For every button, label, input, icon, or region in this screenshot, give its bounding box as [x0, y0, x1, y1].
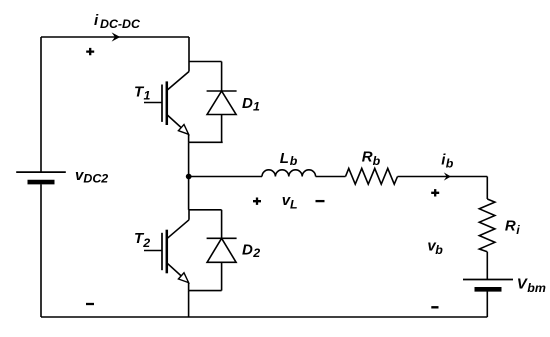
arrow i_b — [444, 172, 451, 180]
svg-text:R: R — [505, 218, 516, 235]
wire D1 bottom — [221, 115, 223, 143]
label vb — [427, 238, 443, 257]
label T1 — [134, 84, 151, 103]
wire bottom rail — [41, 316, 487, 318]
wire mid rail left — [189, 176, 262, 178]
wire T2 emitter to bottom rail — [188, 291, 190, 317]
plus sign vb — [431, 189, 439, 196]
label ib — [441, 152, 454, 171]
arrow i_DC-DC — [112, 32, 121, 41]
svg-text:R: R — [362, 149, 373, 166]
wire top rail — [41, 36, 189, 38]
wire D2 top — [221, 210, 223, 239]
wire right vertical mid — [486, 252, 488, 280]
svg-text:bm: bm — [527, 281, 546, 295]
label Vbm — [517, 276, 546, 295]
label D2 — [242, 242, 260, 260]
plus sign vL — [253, 198, 261, 205]
resistor Rb — [346, 168, 398, 184]
svg-text:2: 2 — [142, 236, 150, 250]
minus sign bottom right — [431, 306, 438, 308]
svg-text:D: D — [242, 95, 253, 112]
svg-text:1: 1 — [253, 99, 260, 113]
svg-text:D: D — [242, 242, 253, 259]
svg-text:b: b — [373, 154, 381, 168]
label Lb — [280, 150, 298, 168]
svg-text:2: 2 — [252, 246, 260, 260]
wire center leg — [188, 142, 190, 210]
svg-text:i: i — [516, 223, 520, 237]
minus sign vL — [316, 200, 325, 202]
wire T2 top junction — [189, 209, 222, 211]
svg-text:L: L — [290, 197, 298, 211]
wire D1 top — [221, 62, 223, 92]
label i_DC-DC — [94, 12, 141, 31]
inductor Lb — [262, 170, 316, 177]
voltage source Vbm — [463, 280, 513, 290]
resistor Ri — [479, 199, 495, 252]
svg-text:DC2: DC2 — [83, 172, 108, 186]
transistor T2 (IGBT) — [144, 220, 189, 291]
label vDC2 — [75, 167, 108, 185]
voltage source vDC2 — [16, 172, 66, 182]
diode D1 — [207, 91, 237, 115]
wire mid rail right — [398, 176, 488, 178]
plus sign top left — [86, 48, 94, 55]
wire D2 bottom — [221, 262, 223, 290]
label vL — [282, 192, 298, 211]
wire T2 collector drop — [188, 210, 190, 220]
wire right vertical bottom — [486, 292, 488, 318]
minus sign bottom left — [86, 303, 94, 305]
wire left vertical (bottom) — [40, 184, 42, 317]
wire T1 top junction — [189, 61, 222, 63]
node junction (half-bridge midpoint) — [186, 174, 192, 180]
wire mid rail middle — [316, 176, 346, 178]
wire right vertical top — [486, 177, 488, 200]
label Rb — [362, 149, 381, 168]
wire T1 bottom junction — [189, 141, 223, 143]
svg-text:b: b — [290, 154, 298, 168]
wire left vertical (top) — [40, 37, 42, 172]
svg-text:DC-DC: DC-DC — [100, 17, 141, 31]
svg-text:L: L — [280, 150, 289, 167]
transistor T1 (IGBT) — [144, 72, 189, 143]
label T2 — [134, 230, 150, 250]
label D1 — [242, 95, 260, 113]
wire T2 bottom junction — [189, 290, 222, 292]
svg-text:1: 1 — [144, 89, 151, 103]
diode D2 — [207, 238, 237, 262]
svg-text:b: b — [435, 243, 443, 257]
svg-text:b: b — [446, 157, 454, 171]
label Ri — [505, 218, 520, 238]
wire T1 collector drop — [188, 37, 190, 72]
